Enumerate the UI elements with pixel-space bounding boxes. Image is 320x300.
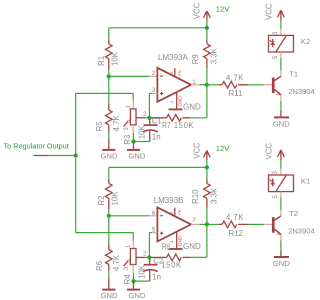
node junction R1/R5/pin2 (107, 70, 111, 79)
svg-text:3: 3 (273, 171, 279, 175)
ground below R6 (101, 271, 118, 300)
svg-text:To Regulator Output: To Regulator Output (4, 142, 69, 151)
svg-text:LM393A: LM393A (158, 53, 188, 62)
wire pin3 net (149, 93, 157, 117)
svg-text:4: 4 (169, 101, 174, 104)
wire output pin1 (191, 84, 207, 86)
svg-text:GND: GND (101, 151, 118, 160)
VCC supply (bottom rail) (192, 142, 210, 167)
node junction wiper/C2/R8 (147, 255, 151, 259)
svg-text:3: 3 (123, 266, 130, 270)
ground below R3/C1 (127, 142, 146, 161)
relay K1 (269, 169, 311, 211)
op-amp U2 LM393B (152, 196, 201, 251)
op-amp GND pin (176, 93, 178, 109)
svg-text:5: 5 (273, 55, 279, 59)
op-amp +V pin (174, 68, 176, 76)
svg-text:+V: +V (177, 69, 182, 76)
svg-text:GND: GND (177, 96, 182, 107)
svg-text:K2: K2 (301, 37, 310, 46)
svg-text:2N3904: 2N3904 (288, 226, 315, 235)
svg-text:R9: R9 (191, 54, 200, 64)
R4 pin3 stub (132, 265, 134, 282)
svg-text:R6: R6 (95, 261, 104, 271)
resistor R11 4.7K (207, 73, 272, 98)
ground below R4/C2 (127, 281, 146, 300)
node junction output (205, 83, 209, 87)
svg-text:1: 1 (125, 244, 132, 248)
svg-text:10K: 10K (137, 125, 146, 140)
svg-text:GND: GND (177, 235, 182, 246)
svg-text:GND: GND (273, 259, 290, 268)
svg-text:4.7K: 4.7K (226, 73, 244, 82)
resistor R9 3.3K (191, 28, 218, 85)
ground below T1 (273, 101, 290, 129)
svg-text:+V: +V (177, 209, 182, 216)
svg-text:2: 2 (143, 251, 147, 258)
R3 pin3 stub (132, 125, 134, 142)
svg-text:R5: R5 (95, 121, 104, 132)
relay K2 (269, 29, 311, 71)
transistor T1 2N3904 (272, 69, 315, 101)
svg-text:150K: 150K (161, 261, 182, 270)
svg-text:T2: T2 (289, 209, 298, 218)
ground below T2 (273, 240, 290, 268)
VCC supply (top rail) (192, 2, 210, 27)
resistor R8 150K (feedback) (149, 224, 207, 269)
svg-text:10K: 10K (137, 264, 146, 279)
svg-text:150K: 150K (174, 121, 195, 130)
svg-text:6: 6 (152, 210, 156, 217)
node junction wiper/C1/R7 (147, 116, 151, 120)
svg-text:VCC: VCC (265, 143, 274, 160)
svg-text:10K: 10K (110, 51, 119, 66)
svg-text:12V: 12V (216, 144, 230, 153)
svg-text:3: 3 (273, 31, 279, 35)
svg-text:R7: R7 (162, 121, 170, 130)
svg-text:R12: R12 (229, 229, 243, 238)
wire C1 bottom to gnd node (131, 139, 149, 143)
svg-text:R3: R3 (123, 135, 132, 145)
wire sense line vertical (75, 93, 77, 232)
transistor T2 2N3904 (272, 209, 315, 241)
resistor R10 3.3K (191, 167, 218, 224)
wire pin2 net (109, 75, 158, 77)
svg-text:3: 3 (152, 87, 156, 94)
svg-text:3.3K: 3.3K (209, 187, 218, 204)
resistor R2 10K (97, 167, 120, 209)
resistor R7 150K (feedback) (149, 85, 207, 130)
label To Regulator Output (4, 142, 78, 158)
svg-text:LM393B: LM393B (154, 196, 184, 205)
resistor R5 4.7K (95, 76, 121, 131)
svg-text:4.7K: 4.7K (112, 115, 121, 132)
resistor R1 10K (97, 28, 120, 70)
svg-text:8: 8 (169, 72, 174, 75)
svg-text:K1: K1 (301, 177, 310, 186)
VCC supply (K1) (265, 143, 285, 169)
svg-text:1n: 1n (152, 273, 161, 282)
trimmer R4 10K (123, 244, 149, 284)
svg-text:GND: GND (129, 151, 146, 160)
svg-text:1n: 1n (152, 132, 161, 141)
capacitor C1 1n (143, 117, 162, 142)
svg-text:10K: 10K (110, 191, 119, 206)
trimmer R3 10K (123, 105, 149, 145)
svg-text:R1: R1 (97, 56, 106, 66)
svg-text:2N3904: 2N3904 (288, 87, 315, 96)
svg-text:1: 1 (125, 105, 132, 109)
svg-text:VCC: VCC (192, 2, 201, 19)
resistor R12 4.7K (207, 213, 272, 238)
svg-text:2: 2 (152, 70, 156, 77)
capacitor C2 1n (143, 257, 163, 282)
svg-text:GND: GND (273, 119, 290, 128)
wire top rail (109, 27, 207, 29)
svg-text:3: 3 (123, 127, 130, 131)
svg-text:R8: R8 (162, 243, 170, 252)
wire C2 bottom to gnd node (131, 279, 149, 283)
svg-text:7: 7 (192, 217, 196, 224)
op-amp B GND pin (176, 232, 178, 248)
svg-text:8: 8 (169, 211, 174, 214)
wire pin6 net (109, 215, 158, 217)
svg-text:5: 5 (273, 195, 279, 199)
node junction output B (205, 222, 209, 226)
svg-text:VCC: VCC (265, 3, 274, 20)
ground below R5 (101, 132, 118, 161)
op-amp B +V pin (174, 208, 176, 216)
op-amp U1 LM393A (152, 53, 201, 112)
svg-text:R2: R2 (97, 196, 106, 206)
wire sense bottom branch to R4 pin1 (76, 233, 134, 249)
node junction rail/R9 (205, 26, 209, 30)
wire pin5 net (149, 233, 157, 258)
svg-text:R10: R10 (191, 189, 200, 204)
svg-text:2: 2 (143, 111, 147, 118)
svg-text:GND: GND (129, 291, 146, 300)
resistor R6 4.7K (95, 216, 121, 271)
node junction R2/R6/pin6 (107, 210, 111, 218)
svg-text:GND: GND (183, 242, 201, 251)
wire sense top branch to R3 pin1 (76, 93, 134, 109)
svg-text:R4: R4 (123, 274, 132, 285)
svg-text:VCC: VCC (192, 142, 201, 159)
wire bottom rail (109, 166, 207, 168)
svg-text:GND: GND (101, 291, 118, 300)
svg-text:4.7K: 4.7K (226, 213, 244, 222)
svg-text:R11: R11 (229, 89, 243, 98)
svg-text:4.7K: 4.7K (112, 254, 121, 271)
svg-text:3.3K: 3.3K (209, 47, 218, 64)
svg-text:T1: T1 (289, 69, 298, 78)
svg-text:12V: 12V (216, 4, 230, 13)
svg-text:GND: GND (183, 103, 201, 112)
VCC supply (K2) (265, 3, 285, 29)
node junction rail/R10 (205, 165, 209, 169)
wire output pin7 (191, 223, 207, 225)
